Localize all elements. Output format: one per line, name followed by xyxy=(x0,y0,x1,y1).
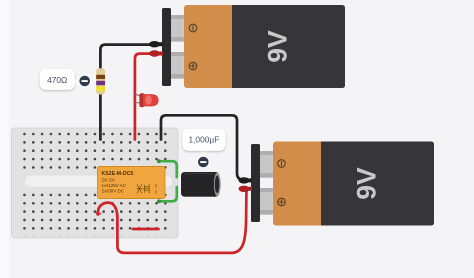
battery1 body xyxy=(184,5,345,88)
battery1 clip bar xyxy=(162,8,171,86)
minus button for 1000uF xyxy=(197,156,210,169)
svg-text:470Ω: 470Ω xyxy=(47,75,67,85)
svg-text:1A/125V AC: 1A/125V AC xyxy=(102,183,127,188)
band yellow xyxy=(96,86,105,91)
svg-text:2A/30V DC: 2A/30V DC xyxy=(102,188,125,193)
battery2 positive lug xyxy=(239,186,253,192)
LED leads xyxy=(136,94,142,96)
value label 1000uF xyxy=(182,129,225,169)
relay K1 KS2E-M-DC5 xyxy=(98,167,166,199)
battery2 minus symbol xyxy=(278,160,286,168)
breadboard holes xyxy=(23,133,166,230)
battery BAT1 9V (top) xyxy=(149,5,345,88)
wire green relay to capacitor top xyxy=(159,161,177,177)
wire black breadboard to battery2 negative xyxy=(161,115,248,180)
wire black resistor to battery1 negative xyxy=(100,45,151,140)
breadboard faint bottom row xyxy=(23,235,166,237)
LED dome xyxy=(143,94,159,106)
svg-text:KS2E-M-DC5: KS2E-M-DC5 xyxy=(102,171,134,177)
battery2 clip bar xyxy=(251,144,260,222)
band violet xyxy=(96,81,105,85)
wire red hook end fork xyxy=(96,212,101,215)
breadboard center channel xyxy=(25,176,172,187)
green wire tips xyxy=(157,159,161,163)
battery1 terminal cylinders xyxy=(171,15,184,42)
battery2 plus symbol xyxy=(278,198,286,206)
value label 470 ohm xyxy=(40,69,91,90)
battery2 body xyxy=(273,142,434,226)
breadboard xyxy=(12,128,179,238)
svg-text:DC 5V: DC 5V xyxy=(102,177,115,182)
wire red short jumper on breadboard xyxy=(133,228,159,231)
LED D1 red xyxy=(136,93,159,107)
band brown xyxy=(96,75,105,79)
LED flange xyxy=(139,93,144,107)
battery1 minus symbol xyxy=(189,24,197,32)
capacitor C1 1000uF xyxy=(181,172,221,197)
battery BAT2 9V (bottom) xyxy=(239,142,435,226)
wire green relay to capacitor bottom xyxy=(159,187,177,201)
svg-text:9V: 9V xyxy=(263,30,293,63)
battery2 terminal cylinders xyxy=(260,151,273,178)
battery1 positive lug xyxy=(149,50,163,56)
battery2 negative lug xyxy=(239,177,253,183)
resistor R1 470 ohm xyxy=(96,68,105,94)
relay schematic symbol xyxy=(137,184,156,194)
wire red battery1 positive to LED to breadboard xyxy=(135,54,151,140)
battery1 plus symbol xyxy=(189,62,197,70)
svg-text:9V: 9V xyxy=(352,167,382,200)
svg-text:1,000µF: 1,000µF xyxy=(188,135,219,145)
minus button for 470 ohm xyxy=(78,75,91,88)
wire red battery2 positive to breadboard (bottom loop with hook end) xyxy=(98,189,248,253)
battery1 negative lug xyxy=(149,41,163,47)
